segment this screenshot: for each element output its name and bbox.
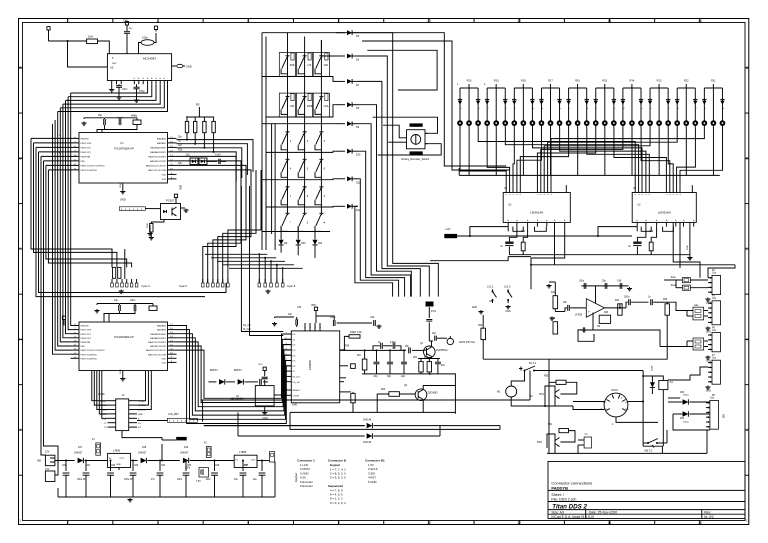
optocoupler D2 D3 on row bbox=[190, 158, 198, 165]
LED D37 bbox=[604, 88, 606, 121]
svg-text:12V: 12V bbox=[45, 468, 50, 471]
LED D38 bbox=[613, 88, 615, 121]
svg-text:12: 12 bbox=[517, 521, 521, 525]
bottom rails q2 bbox=[290, 411, 455, 413]
svg-text:R16: R16 bbox=[575, 78, 580, 82]
svg-text:PIC16F628A-I/P: PIC16F628A-I/P bbox=[114, 335, 134, 339]
crystal cluster caps to MCU bbox=[118, 119, 120, 125]
LED D50 bbox=[721, 88, 723, 121]
svg-text:C67: C67 bbox=[244, 465, 249, 467]
svg-text:R30: R30 bbox=[345, 346, 350, 348]
svg-text:LCD_4BIT: LCD_4BIT bbox=[168, 414, 179, 416]
relay drive vertical bbox=[642, 371, 644, 447]
svg-text:R20: R20 bbox=[301, 243, 306, 245]
svg-text:8: 8 bbox=[338, 19, 340, 23]
diode D9 bbox=[336, 123, 345, 125]
svg-text:100: 100 bbox=[324, 63, 329, 67]
PC817 supply flags bbox=[175, 199, 177, 204]
diode D19 bbox=[183, 458, 189, 463]
MCU2 right bundle down to AD9850 bbox=[177, 326, 292, 424]
connector J2 bottom wire to flag bbox=[122, 431, 162, 440]
svg-text:PB7/T1OSI/PGD: PB7/T1OSI/PGD bbox=[81, 170, 98, 172]
svg-text:CHL: CHL bbox=[324, 104, 330, 108]
diode D10 bbox=[336, 150, 345, 152]
wire inductor right to vdd2 bbox=[154, 33, 156, 43]
svg-text:VDD: VDD bbox=[258, 364, 263, 366]
svg-text:U5: U5 bbox=[110, 65, 114, 69]
svg-text:MC34063: MC34063 bbox=[143, 56, 156, 60]
Q1 output caps to DDS out bbox=[429, 340, 433, 342]
svg-text:Connector 1: Connector 1 bbox=[297, 459, 315, 463]
svg-text:PB7/T1OSI/PGD: PB7/T1OSI/PGD bbox=[81, 354, 98, 356]
svg-text:Con: Con bbox=[712, 358, 717, 360]
crystal Y1 bbox=[133, 120, 141, 125]
svg-text:D19: D19 bbox=[184, 447, 189, 449]
svg-text:5V: 5V bbox=[530, 396, 533, 398]
svg-text:SW1: SW1 bbox=[537, 441, 543, 444]
IC U5 MC34063 box bbox=[107, 54, 171, 81]
oscillator top cap and flags bbox=[264, 380, 266, 386]
svg-text:2SC4083: 2SC4083 bbox=[428, 392, 439, 395]
svg-text:D18: D18 bbox=[142, 447, 147, 449]
wires driver2 to connector group bbox=[679, 222, 681, 268]
svg-text:PB4/PGM: PB4/PGM bbox=[81, 157, 91, 159]
svg-text:GND: GND bbox=[263, 417, 269, 420]
svg-text:VDD: VDD bbox=[161, 358, 166, 360]
svg-text:safe: safe bbox=[694, 305, 699, 307]
svg-text:PC817: PC817 bbox=[166, 199, 175, 203]
connector Cyan 4 bbox=[112, 267, 115, 278]
svg-text:Keypad: Keypad bbox=[294, 473, 298, 482]
LED D26 bbox=[504, 88, 506, 121]
mesh wire U2 pin 1 bbox=[460, 129, 506, 186]
LED group resistor R12 rail bbox=[677, 87, 695, 89]
svg-text:2: 2 bbox=[67, 521, 69, 525]
diode D5 bbox=[336, 32, 345, 34]
fuse holder vertical bbox=[96, 443, 101, 455]
svg-text:GND: GND bbox=[138, 414, 143, 416]
MCU2 bottom gnd bbox=[122, 371, 124, 378]
rotary encoder SW body bbox=[407, 130, 426, 149]
svg-text:1N48: 1N48 bbox=[652, 365, 654, 371]
svg-text:L: L bbox=[20, 519, 22, 523]
svg-text:+: + bbox=[588, 310, 590, 314]
svg-text:C62: C62 bbox=[111, 465, 116, 467]
svg-text:6: 6 bbox=[247, 19, 249, 23]
svg-text:M1: M1 bbox=[497, 391, 501, 394]
long net wires to right relay area bbox=[201, 399, 530, 401]
connector Cyan 6 bbox=[202, 279, 204, 283]
electrolytic cap C at x=66 bbox=[65, 461, 67, 472]
LED D22 bbox=[468, 88, 470, 121]
svg-text:Con: Con bbox=[712, 298, 717, 300]
svg-text:+70: +70 bbox=[307, 63, 312, 67]
encoder net label top bbox=[410, 123, 423, 126]
svg-text:OUT: OUT bbox=[119, 458, 124, 460]
LED D27 bbox=[513, 88, 515, 121]
svg-text:D10: D10 bbox=[356, 154, 361, 157]
mesh wire U3 pin 1 bbox=[478, 129, 635, 186]
svg-text:1N4148: 1N4148 bbox=[363, 442, 372, 444]
svg-text:Sheet: /: Sheet: / bbox=[551, 493, 563, 497]
connector con small q4 bbox=[584, 437, 591, 448]
wire U5 pin to left bundle bbox=[58, 84, 168, 111]
svg-text:RA3/AN3/CMP1: RA3/AN3/CMP1 bbox=[150, 337, 167, 340]
svg-text:Rev:: Rev: bbox=[704, 510, 711, 514]
svg-text:B: B bbox=[19, 66, 21, 70]
relay bottom rail bbox=[547, 452, 707, 454]
LED D33 bbox=[568, 88, 570, 121]
opamp top supply caps bbox=[595, 286, 597, 303]
LED D45 bbox=[676, 88, 678, 121]
svg-text:100n: 100n bbox=[206, 479, 212, 481]
wire vdd to fuse bbox=[49, 40, 87, 42]
transistor Q4 with base resistor bbox=[559, 429, 569, 433]
pushbutton SW r6c3 bbox=[319, 212, 323, 214]
wire bus MCU1 left pins to outer bundle bbox=[31, 137, 79, 139]
svg-text:NC: NC bbox=[603, 402, 607, 404]
svg-text:470n: 470n bbox=[431, 311, 437, 313]
svg-text:R18: R18 bbox=[521, 78, 526, 82]
LED D44 bbox=[667, 88, 669, 121]
mesh wire U3 pin 2 bbox=[505, 129, 638, 186]
LED group resistor R16 rail bbox=[569, 87, 587, 89]
diode cathode drop bundle bbox=[358, 33, 438, 297]
svg-text:RA5/MCLR/VPP: RA5/MCLR/VPP bbox=[150, 160, 167, 163]
mesh wire U3 pin 7 bbox=[641, 129, 670, 186]
IC U5 right pin to coil and gnd bbox=[172, 65, 176, 67]
amp bottom rail bbox=[483, 358, 667, 360]
net wires MCU1 right rows to keypad bundle bbox=[177, 140, 254, 172]
svg-text:Titan DDS 2: Titan DDS 2 bbox=[552, 503, 587, 510]
motor circle M1 bbox=[506, 386, 517, 397]
pushbutton SW r1c2 bbox=[303, 55, 307, 57]
regulator U8 L7809 box bbox=[108, 453, 131, 467]
series cap to opamp bbox=[555, 311, 565, 313]
keypad column verticals bbox=[287, 40, 289, 213]
svg-text:5.60p: 5.60p bbox=[390, 342, 396, 344]
outer bundle verticals down bbox=[31, 138, 112, 267]
psu ground rail bbox=[58, 496, 275, 498]
opamp U10 LF356 triangle bbox=[586, 299, 604, 318]
svg-text:2: 2 bbox=[67, 19, 69, 23]
GND symbol under U5 pin1 bbox=[111, 84, 113, 88]
LED group resistor R17 rail bbox=[541, 87, 559, 89]
AD9850 right small box bbox=[340, 365, 348, 367]
svg-text:BAT54: BAT54 bbox=[234, 369, 242, 372]
amp input resistor bbox=[481, 328, 486, 339]
wire vdd branch down to IC pin bbox=[68, 41, 108, 67]
svg-text:PB4/PGM: PB4/PGM bbox=[81, 342, 91, 344]
svg-text:R22: R22 bbox=[318, 243, 323, 245]
switch 5V 2.2 bbox=[647, 442, 649, 444]
LED group resistor R15 rail bbox=[596, 87, 614, 89]
svg-text:PB0/INT: PB0/INT bbox=[81, 326, 90, 328]
wire U5 pin to left bundle bbox=[63, 84, 160, 104]
LED D43 bbox=[658, 88, 660, 121]
output resistor 2 bbox=[665, 304, 669, 315]
U2 top pin stubs bbox=[505, 185, 507, 192]
Q2 collector emitter wires bbox=[423, 386, 455, 390]
svg-text:4: 4 bbox=[157, 19, 159, 23]
svg-text:9 = 0, 2, 5, 4: 9 = 0, 2, 5, 4 bbox=[330, 501, 346, 505]
power flag VDD top-left bbox=[48, 30, 50, 32]
svg-text:12: 12 bbox=[517, 19, 521, 23]
wires MCU1 right rows 5-8 to down bundle bbox=[177, 156, 237, 186]
amp gnd drop to relay rail bbox=[548, 359, 550, 453]
Q2 base resistor bbox=[389, 392, 400, 397]
svg-text:5V 3.2: 5V 3.2 bbox=[529, 362, 537, 365]
series cap 1n bbox=[650, 299, 652, 305]
LED D14 matrix bottom bbox=[297, 226, 299, 239]
svg-text:100n: 100n bbox=[122, 88, 128, 91]
svg-text:VDD: VDD bbox=[161, 175, 166, 177]
svg-text:L7809: L7809 bbox=[113, 449, 121, 453]
LED D31 bbox=[550, 88, 552, 121]
svg-text:C30: C30 bbox=[297, 307, 302, 309]
svg-text:RA5/MCLR/VPP: RA5/MCLR/VPP bbox=[150, 345, 167, 348]
svg-text:Connector B: Connector B bbox=[328, 459, 347, 463]
AD9850 qout pins bbox=[340, 377, 346, 379]
svg-text:150u: 150u bbox=[142, 36, 148, 40]
svg-text:10p: 10p bbox=[114, 299, 119, 302]
svg-text:C22: C22 bbox=[649, 231, 654, 233]
svg-text:Rotary_Encoder_Switch: Rotary_Encoder_Switch bbox=[401, 157, 429, 161]
svg-text:100n: 100n bbox=[130, 299, 136, 302]
LED D40 bbox=[631, 88, 633, 121]
svg-text:R17: R17 bbox=[548, 78, 553, 82]
LED D29 bbox=[531, 88, 533, 121]
svg-text:R50: R50 bbox=[544, 376, 549, 378]
svg-text:RA0/AN0: RA0/AN0 bbox=[157, 138, 167, 141]
pushbutton SW r4c3 bbox=[319, 158, 323, 160]
oscillator bottom gnd bbox=[264, 406, 266, 411]
wire U5 pin to left bundle bbox=[66, 84, 157, 100]
svg-text:RA3/AN3/CMP1: RA3/AN3/CMP1 bbox=[150, 151, 167, 154]
svg-text:R14: R14 bbox=[630, 78, 635, 82]
drivers ground rail bbox=[509, 254, 690, 256]
LED D30 bbox=[540, 88, 542, 121]
pushbutton SW r2c2 bbox=[303, 95, 307, 97]
U2 bottom components bbox=[507, 227, 509, 232]
mesh wire U2 pin 8 bbox=[544, 129, 650, 186]
svg-text:Rote: Rote bbox=[671, 276, 677, 279]
svg-text:SW 2.2: SW 2.2 bbox=[644, 450, 653, 453]
resistor R9 of network bbox=[213, 117, 215, 121]
mesh wire U3 pin 4 bbox=[560, 129, 646, 186]
svg-text:16: 16 bbox=[698, 19, 702, 23]
pushbutton SW r4c2 bbox=[303, 158, 307, 160]
svg-text:3 = 9, 6, 3, 5: 3 = 9, 6, 3, 5 bbox=[330, 476, 346, 480]
mesh wire U2 pin 2 bbox=[487, 129, 509, 186]
svg-text:GND: GND bbox=[181, 185, 183, 190]
opamp output bbox=[605, 307, 627, 309]
LED driver U2 LM3914N box bbox=[503, 193, 570, 223]
common rail to 12V riser bbox=[458, 168, 460, 175]
svg-text:15p: 15p bbox=[98, 114, 103, 117]
svg-text:PB7/T1OSI/PGD: PB7/T1OSI/PGD bbox=[81, 358, 98, 360]
diode D12 bbox=[336, 205, 345, 207]
LED group resistor R11 rail bbox=[704, 87, 722, 89]
svg-text:R12: R12 bbox=[684, 78, 689, 82]
common wire led group 4 bbox=[550, 129, 552, 176]
filter rail from AD9850 bbox=[340, 349, 406, 351]
svg-text:R45: R45 bbox=[663, 299, 668, 301]
cap 100n top right of AD9850 bbox=[332, 320, 334, 326]
pushbutton SW r5c1 bbox=[286, 186, 290, 188]
svg-text:6 Encoder: 6 Encoder bbox=[300, 484, 313, 488]
filter shunt resistor bbox=[362, 359, 367, 370]
svg-text:JC1-3: JC1-3 bbox=[504, 286, 511, 289]
transistor Q1 2SC5551 bbox=[424, 346, 436, 358]
keypad row wires to diodes bbox=[262, 77, 336, 82]
svg-text:PB6/T1OSO/T1CKI/PGC: PB6/T1OSO/T1CKI/PGC bbox=[81, 166, 106, 168]
LED group resistor R18 rail bbox=[514, 87, 532, 89]
svg-text:20n: 20n bbox=[563, 301, 568, 304]
wire center bottom long bbox=[290, 412, 500, 429]
LED D36 bbox=[595, 88, 597, 121]
wires from psu to relay zone bbox=[529, 371, 531, 401]
svg-text:R42: R42 bbox=[551, 318, 556, 320]
gnd flag above group1 bbox=[689, 256, 691, 258]
electrolytic cap C at x=262 bbox=[261, 461, 263, 472]
capacitor C42 under U5 bbox=[134, 86, 140, 88]
svg-text:GND: GND bbox=[120, 182, 122, 187]
svg-text:200n: 200n bbox=[624, 296, 630, 299]
svg-text:R11: R11 bbox=[711, 78, 716, 82]
wire fuse to IC bbox=[98, 41, 110, 54]
svg-text:DIN: DIN bbox=[724, 414, 726, 418]
svg-text:DRC: DRC bbox=[112, 63, 117, 65]
svg-text:14: 14 bbox=[608, 19, 612, 23]
LED D21 bbox=[459, 88, 461, 121]
wire U5 pin to left bundle bbox=[68, 84, 152, 97]
electrolytic cap C at x=243 bbox=[242, 461, 244, 472]
LED D23 bbox=[477, 88, 479, 121]
connector 12V input 2 bbox=[45, 471, 55, 482]
common wire led group 10 bbox=[712, 129, 714, 176]
filter ground rail bbox=[362, 373, 445, 375]
svg-text:File: DDS 2.sch: File: DDS 2.sch bbox=[551, 498, 576, 502]
LED D46 bbox=[685, 88, 687, 121]
electrolytic cap C at x=214 bbox=[214, 461, 216, 472]
diode D7 bbox=[336, 80, 345, 82]
svg-text:GND: GND bbox=[120, 369, 122, 374]
common wire led group 7 bbox=[631, 129, 633, 176]
mosfet Q5 bbox=[199, 468, 209, 478]
LED D35 bbox=[586, 88, 588, 121]
svg-text:12V: 12V bbox=[45, 451, 50, 454]
svg-text:RESET: RESET bbox=[293, 390, 301, 392]
svg-text:C63: C63 bbox=[134, 465, 139, 467]
svg-text:R19: R19 bbox=[494, 78, 499, 82]
microcontroller U1 PIC16F628A box bbox=[79, 133, 168, 184]
resistor R6 of network bbox=[186, 117, 188, 121]
transistor Q3 with base resistor bbox=[556, 380, 566, 384]
svg-text:RA0/AN0: RA0/AN0 bbox=[157, 325, 167, 328]
gnd symbol psu bbox=[129, 498, 131, 500]
LED group resistor R14 rail bbox=[623, 87, 641, 89]
svg-text:R51: R51 bbox=[548, 424, 553, 426]
mesh wire U2 pin 6 bbox=[537, 129, 595, 186]
frame column ticks and numbers bbox=[67, 19, 69, 23]
LED common anode rail bbox=[459, 174, 720, 176]
svg-text:KiCad E.D.A. kicad (5.1.5-0): KiCad E.D.A. kicad (5.1.5-0) bbox=[551, 515, 594, 519]
wire cap to IC top pin bbox=[126, 48, 128, 54]
svg-text:C46: C46 bbox=[617, 281, 622, 283]
LED D48 bbox=[703, 88, 705, 121]
svg-text:RSET 3.9k: RSET 3.9k bbox=[350, 331, 362, 334]
resistor R7 of network bbox=[194, 117, 196, 121]
svg-text:CLKIN: CLKIN bbox=[293, 395, 300, 397]
LED group resistor R19 rail bbox=[487, 87, 505, 89]
pushbutton SW r5c3 bbox=[319, 186, 323, 188]
svg-text:RA2/AN2/VREF: RA2/AN2/VREF bbox=[150, 147, 166, 150]
svg-text:Reel: Reel bbox=[671, 285, 676, 287]
svg-text:1N4: 1N4 bbox=[88, 35, 93, 39]
svg-text:4: 4 bbox=[157, 521, 159, 525]
common wire led group 6 bbox=[604, 129, 606, 176]
keypad frame wires bbox=[261, 33, 263, 250]
U3 bottom pin elbows bbox=[641, 227, 651, 232]
svg-text:RA6/OSC2/CLKOUT: RA6/OSC2/CLKOUT bbox=[146, 349, 167, 352]
svg-text:R32: R32 bbox=[424, 357, 429, 359]
svg-text:R44: R44 bbox=[615, 300, 620, 302]
U3 bottom pin stubs bbox=[636, 222, 638, 226]
U2 bottom pin elbows bbox=[513, 227, 523, 232]
svg-text:C44: C44 bbox=[370, 316, 375, 319]
amp input gnd flag bbox=[480, 310, 482, 312]
relay A1 box bbox=[659, 381, 668, 390]
svg-text:PB6/T1OSO/T1CKI/PGC: PB6/T1OSO/T1CKI/PGC bbox=[81, 350, 106, 352]
svg-text:LM3914N: LM3914N bbox=[658, 211, 671, 215]
svg-text:100n: 100n bbox=[262, 378, 268, 380]
svg-text:Cyan 8: Cyan 8 bbox=[287, 284, 296, 288]
wires top keypad to led mesh bbox=[357, 33, 507, 166]
svg-text:RA7/OSC1/CLKIN: RA7/OSC1/CLKIN bbox=[148, 169, 166, 172]
MCU2 vdd flag bbox=[63, 320, 65, 322]
svg-text:C64: C64 bbox=[161, 465, 166, 467]
mesh wire U2 pin 9 bbox=[548, 129, 678, 186]
svg-text:PB2/T1/CT: PB2/T1/CT bbox=[81, 334, 92, 336]
top diodes feed wires bbox=[287, 33, 289, 40]
svg-text:PB3/CCP1: PB3/CCP1 bbox=[81, 338, 92, 340]
Q1 collector network up bbox=[429, 341, 431, 347]
svg-text:BAT54: BAT54 bbox=[210, 369, 218, 372]
DIN connector circle bbox=[604, 393, 628, 417]
svg-text:C21: C21 bbox=[521, 231, 526, 233]
horizontal bus below keypad to cyan8 bbox=[205, 253, 267, 255]
pushbutton SW r5c2 bbox=[303, 186, 307, 188]
svg-text:R40: R40 bbox=[478, 325, 483, 327]
svg-text:VSS: VSS bbox=[162, 179, 167, 181]
electrolytic cap C at x=133 bbox=[132, 461, 134, 472]
pushbutton SW r3c3 bbox=[319, 131, 323, 133]
left bus bundle A down to MCU2 bbox=[70, 93, 72, 326]
psu main rail bbox=[55, 460, 75, 462]
svg-text:GND: GND bbox=[706, 390, 712, 393]
svg-text:DDS PP Out: DDS PP Out bbox=[459, 340, 475, 344]
mesh wire U3 pin 10 bbox=[680, 129, 723, 186]
svg-text:6: 6 bbox=[247, 521, 249, 525]
diode D6 bbox=[336, 55, 345, 57]
svg-text:1N(a): 1N(a) bbox=[683, 395, 689, 397]
svg-text:PB1/T1/SF: PB1/T1/SF bbox=[81, 330, 92, 332]
transistor Q2 2SC4083 bbox=[415, 389, 427, 401]
common wire led group 2 bbox=[495, 129, 497, 176]
svg-text:Con: Con bbox=[710, 398, 715, 400]
svg-text:RA2/AN2/VREF: RA2/AN2/VREF bbox=[150, 333, 166, 336]
